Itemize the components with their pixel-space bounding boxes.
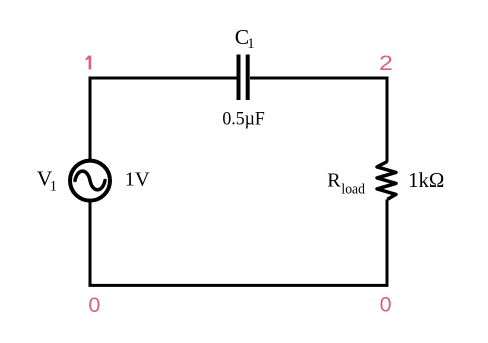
svg-text:0.5µF: 0.5µF — [222, 109, 265, 130]
svg-text:0: 0 — [88, 293, 100, 317]
svg-text:R: R — [327, 170, 341, 192]
svg-text:0: 0 — [380, 292, 392, 316]
svg-text:2: 2 — [379, 51, 393, 75]
svg-text:1kΩ: 1kΩ — [408, 169, 444, 192]
svg-text:1: 1 — [247, 36, 254, 52]
svg-text:1V: 1V — [125, 168, 150, 190]
svg-text:1: 1 — [50, 179, 57, 195]
svg-text:load: load — [341, 181, 365, 197]
